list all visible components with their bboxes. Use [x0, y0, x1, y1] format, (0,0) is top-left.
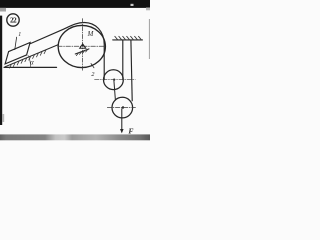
pivot ground stroke: [75, 49, 89, 54]
svg-text:22: 22: [10, 16, 17, 25]
svg-text:1: 1: [18, 32, 21, 38]
upper pulley dash-dot axis: [95, 79, 136, 81]
ceiling hatching: [115, 36, 142, 40]
lower pulley: [112, 97, 133, 118]
problem number badge circle 22: [7, 14, 19, 26]
axle pivot symbol at big pulley centre: [82, 44, 84, 46]
pivot hatches: [76, 49, 88, 55]
force F arrow: [121, 109, 123, 130]
label 1 leader: [15, 37, 17, 49]
svg-text:F: F: [128, 127, 133, 136]
vertical dash-dot axis of big pulley: [82, 19, 84, 72]
svg-text:M: M: [87, 31, 94, 38]
lower pulley dash-dot axis: [107, 107, 135, 109]
page-edge black bar top: [0, 0, 150, 8]
rope from ceiling down to lower pulley right side: [131, 40, 132, 101]
svg-text:α: α: [30, 58, 34, 66]
ground baseline: [4, 66, 56, 68]
rope up from movable pulley to ceiling: [122, 40, 124, 80]
ceiling line: [113, 39, 143, 41]
link between pulleys: [114, 81, 116, 101]
page-edge black bar left: [0, 16, 2, 125]
big pulley M: [58, 25, 105, 67]
block 1 on incline: [5, 43, 30, 64]
horizontal dash-dot axis of big pulley: [58, 45, 105, 47]
bottom scan shadow band: [0, 134, 150, 140]
angle alpha arc: [28, 55, 31, 67]
rope from block over big pulley, down right side: [30, 22, 104, 79]
upper movable pulley: [104, 70, 124, 90]
label 2 leader: [91, 64, 94, 68]
incline hatching: [10, 50, 47, 68]
right page-edge faint line: [149, 19, 150, 59]
incline surface: [5, 45, 58, 67]
faint speck top right: [131, 4, 134, 6]
